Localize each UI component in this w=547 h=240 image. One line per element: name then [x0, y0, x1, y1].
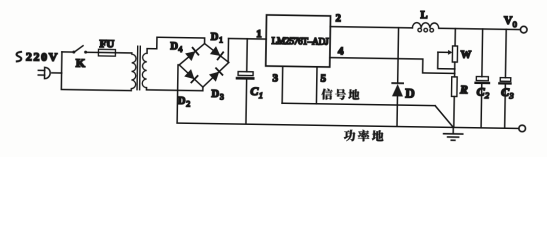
wire switch-loop top — [62, 51, 73, 53]
svg-text:R: R — [459, 84, 468, 96]
svg-text:W: W — [461, 50, 472, 61]
svg-text:4: 4 — [338, 46, 344, 58]
svg-text:LM2576T–ADJ: LM2576T–ADJ — [272, 37, 330, 48]
transformer core — [136, 46, 139, 89]
svg-text:L: L — [420, 10, 427, 21]
svg-text:5: 5 — [320, 73, 326, 85]
node rail to IC pin 1 — [229, 38, 267, 41]
terminal out-minus — [519, 125, 526, 132]
ground symbol — [452, 127, 454, 133]
svg-text:D: D — [211, 32, 219, 43]
wire bridge plus output to rail — [227, 39, 230, 63]
potentiometer W — [454, 29, 456, 46]
plug — [38, 69, 44, 71]
inductor L — [412, 23, 438, 29]
wire to fuse — [87, 51, 98, 53]
wire left vertical (plug node) — [61, 52, 131, 91]
wire pin 4 feedback — [330, 58, 455, 74]
svg-text:V: V — [504, 15, 513, 27]
power ground rail — [177, 123, 519, 128]
svg-text:K: K — [76, 56, 86, 70]
terminal V0 — [520, 26, 527, 33]
svg-text:1: 1 — [219, 35, 223, 44]
capacitor C1 — [246, 39, 249, 72]
capacitor C2 — [481, 29, 484, 77]
wire bridge minus to ground rail — [177, 65, 179, 123]
diode D1 — [210, 46, 221, 56]
diode D2 — [184, 69, 194, 79]
svg-text:3: 3 — [508, 91, 513, 101]
wire pin 2 output — [330, 27, 412, 28]
wire secondary top to bridge top — [147, 37, 205, 54]
svg-text:2: 2 — [186, 99, 190, 108]
wire L to output terminal — [439, 28, 520, 29]
diode D4 — [185, 51, 195, 61]
resistor R — [451, 77, 457, 97]
label xinhaodi — [321, 89, 359, 101]
switch K — [72, 51, 75, 54]
svg-text:D: D — [405, 85, 415, 100]
svg-text:D: D — [170, 41, 178, 52]
wire secondary bottom to bridge bottom — [146, 86, 202, 90]
svg-text:1: 1 — [256, 29, 261, 40]
svg-text:3: 3 — [220, 93, 224, 102]
svg-text:D: D — [211, 89, 219, 100]
circuit schematic: LM2576T-ADJ adjustable switching power supply — [0, 0, 547, 157]
capacitor C3 — [504, 29, 507, 77]
diode D3 — [209, 71, 219, 81]
svg-text:4: 4 — [178, 45, 182, 54]
AC source label ~220V — [16, 52, 21, 62]
diode D freewheel — [397, 28, 400, 83]
svg-text:FU: FU — [99, 38, 114, 50]
svg-text:3: 3 — [272, 72, 278, 84]
svg-text:D: D — [178, 96, 186, 107]
label gonglvdi — [344, 130, 384, 142]
transformer primary winding — [131, 53, 136, 91]
wire fuse to transformer — [115, 52, 131, 54]
transformer secondary winding — [142, 53, 147, 87]
svg-text:0: 0 — [513, 19, 517, 29]
op IC U1 LM2576T-ADJ — [266, 15, 331, 67]
svg-text:2: 2 — [335, 13, 340, 24]
fuse FU — [98, 49, 115, 56]
svg-text:1: 1 — [259, 90, 263, 100]
bridge rectifier diamond — [179, 43, 229, 87]
svg-text:220V: 220V — [26, 49, 58, 63]
signal ground net — [281, 66, 284, 103]
